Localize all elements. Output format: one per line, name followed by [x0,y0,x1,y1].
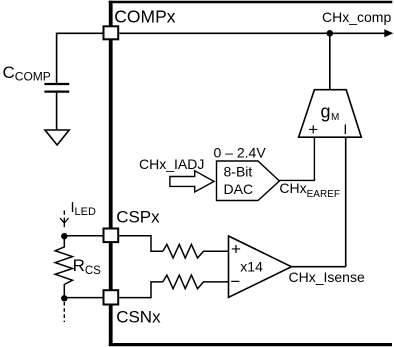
node junction on CHx_comp wire [327,30,334,37]
wire node to gM output [329,33,331,89]
svg-text:CHx_IADJ: CHx_IADJ [139,156,204,172]
svg-text:+: + [231,240,241,259]
wire CSPx to sense resistor [119,236,163,251]
wire COMPx to CHx_comp output [119,32,386,34]
svg-text:COMPx: COMPx [114,6,176,26]
wire node to CSPx [64,235,102,237]
resistor (CSN sense) [163,275,229,289]
svg-text:+: + [308,120,318,139]
resistor (CSP sense) [163,244,229,258]
input block arrow CHx_IADJ [170,171,214,192]
wire node to CSNx [64,297,102,299]
capacitor CCOMP [44,84,69,92]
wire x14 output [291,266,345,268]
wire CCOMP to ground [56,93,58,130]
svg-text:CHx_comp: CHx_comp [322,9,391,25]
op-amp x14 [229,236,292,297]
node junction RCS/CSNx [61,295,67,301]
arrowhead CHx_comp [384,29,393,37]
dashed wire below bottom node [63,302,65,322]
svg-text:−: − [230,272,240,291]
pin COMPx [104,26,119,39]
svg-text:CSNx: CSNx [116,308,161,327]
IC boundary bottom edge [109,343,392,346]
svg-text:DAC: DAC [224,181,254,197]
svg-text:0 – 2.4V: 0 – 2.4V [214,145,267,161]
IC boundary left edge [109,1,113,346]
IC boundary top edge [109,1,393,4]
pin CSPx [104,229,119,243]
resistor RCS [55,236,72,298]
op-amp gM (transconductance amplifier) [299,90,362,138]
svg-text:CSPx: CSPx [116,208,160,227]
svg-text:8-Bit: 8-Bit [224,164,253,180]
svg-text:x14: x14 [240,259,263,275]
svg-text:I: I [343,121,347,137]
DAC U1 (8-Bit DAC) [217,161,280,201]
pin CSNx [104,290,119,304]
wire CSNx to sense resistor [119,282,163,298]
wire gM I input to x14 output [345,137,347,267]
current arrow ILED [60,211,69,228]
wire COMPx to CCOMP [57,33,103,83]
svg-text:CHx_Isense: CHx_Isense [289,269,365,285]
wire gM plus input to DAC output [279,137,314,180]
ground [45,130,69,145]
node junction ILED/RCS/CSPx [61,233,67,239]
